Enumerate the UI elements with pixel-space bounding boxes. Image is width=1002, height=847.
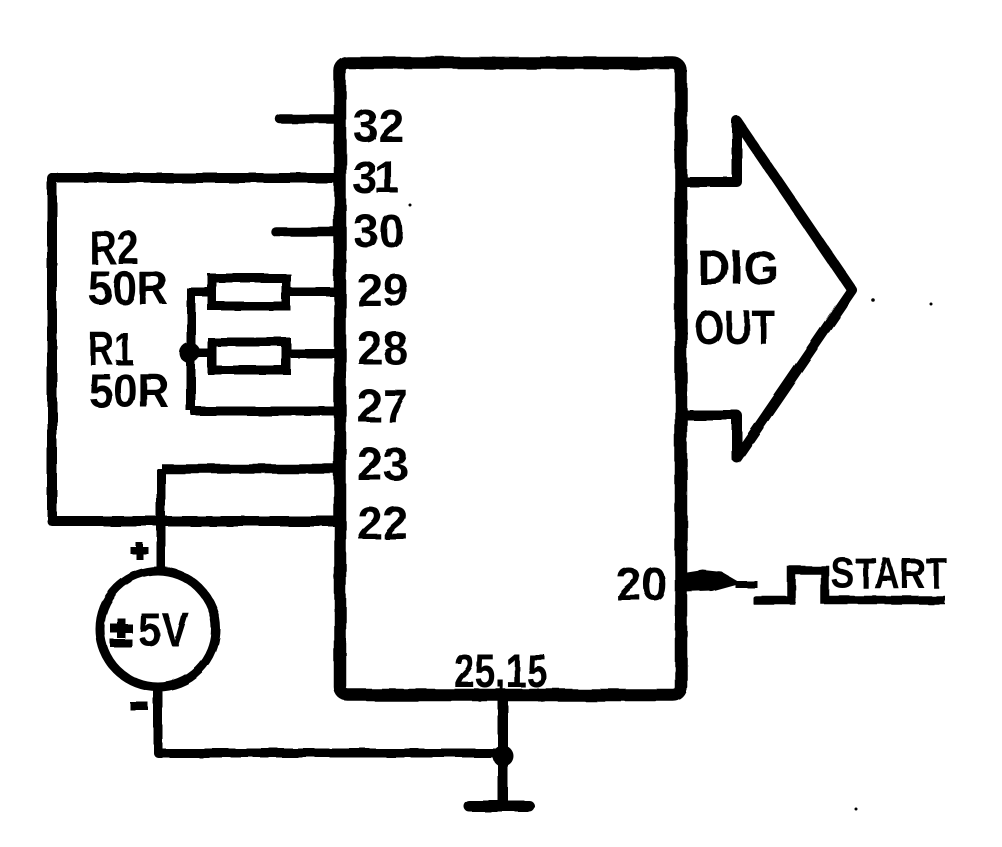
svg-text:23: 23 — [357, 438, 408, 490]
svg-text:29: 29 — [357, 264, 408, 316]
svg-text:20: 20 — [616, 558, 667, 610]
svg-text:5V: 5V — [138, 604, 189, 657]
svg-text:30: 30 — [353, 205, 404, 257]
svg-text:START: START — [831, 549, 947, 598]
svg-text:1: 1 — [374, 151, 400, 203]
svg-text:OUT: OUT — [694, 302, 775, 355]
svg-text:32: 32 — [353, 100, 404, 152]
svg-text:50R: 50R — [89, 364, 169, 417]
svg-text:22: 22 — [357, 497, 408, 549]
svg-text:28: 28 — [357, 322, 408, 374]
svg-text:25,15: 25,15 — [454, 644, 547, 697]
svg-text:DIG: DIG — [697, 242, 779, 295]
svg-text:50R: 50R — [88, 261, 168, 314]
svg-text:27: 27 — [357, 380, 408, 432]
